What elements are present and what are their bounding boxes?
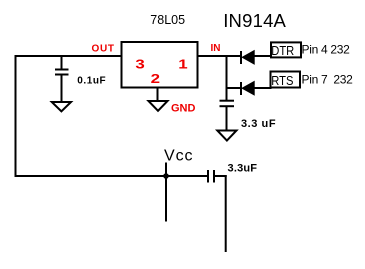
svg-text:Pin 4 232: Pin 4 232 bbox=[302, 42, 351, 56]
wire bottom horizontal to Vcc bbox=[15, 175, 209, 177]
svg-text:RTS: RTS bbox=[271, 73, 293, 88]
pin 2 lead bbox=[157, 88, 159, 102]
regulator U1 78L05 body bbox=[122, 42, 198, 88]
svg-text:DTR: DTR bbox=[271, 43, 294, 58]
svg-text:IN: IN bbox=[211, 43, 221, 54]
wire C3 right lead bbox=[214, 175, 227, 177]
diode D2 cathode bar bbox=[240, 82, 242, 95]
wire IN horizontal bbox=[198, 55, 241, 57]
svg-text:3: 3 bbox=[135, 57, 144, 72]
svg-text:3.3uF: 3.3uF bbox=[228, 163, 258, 175]
diode D1 body bbox=[242, 51, 254, 64]
capacitor C2 3.3uF plate top bbox=[220, 100, 235, 102]
wire right vertical down bbox=[225, 175, 227, 252]
svg-text:3.3 uF: 3.3 uF bbox=[241, 118, 276, 130]
wire D2 to RTS bbox=[254, 87, 272, 89]
wire left vertical bbox=[15, 55, 17, 177]
wire RTS row bbox=[227, 87, 241, 89]
capacitor C1 lead bottom bbox=[61, 75, 63, 103]
capacitor C3 plate right bbox=[213, 170, 215, 183]
capacitor C2 lead bottom bbox=[226, 106, 228, 130]
capacitor C1 plate top bbox=[55, 69, 69, 71]
svg-text:78L05: 78L05 bbox=[150, 13, 185, 27]
svg-text:IN914A: IN914A bbox=[223, 10, 286, 31]
svg-text:GND: GND bbox=[171, 103, 196, 115]
svg-text:2: 2 bbox=[151, 72, 160, 87]
capacitor C1 0.1uF lead top bbox=[61, 56, 63, 70]
svg-text:OUT: OUT bbox=[92, 43, 115, 54]
connector RTS box bbox=[271, 72, 301, 88]
svg-text:Vcc: Vcc bbox=[164, 148, 193, 165]
wire Vcc stub vertical bbox=[165, 163, 167, 222]
connector DTR box bbox=[271, 42, 301, 57]
svg-text:1: 1 bbox=[178, 57, 187, 72]
capacitor C3 3.3uF plate left bbox=[207, 170, 209, 183]
ground G3 bbox=[217, 131, 236, 141]
wire D1 to DTR bbox=[254, 55, 272, 57]
ground G2 bbox=[149, 101, 168, 111]
svg-text:Pin 7 232: Pin 7 232 bbox=[302, 72, 354, 86]
wire OUT horizontal bbox=[15, 55, 123, 57]
diode D1 cathode bar bbox=[240, 51, 242, 64]
ground G1 bbox=[52, 102, 71, 111]
node junction vertical bbox=[226, 55, 228, 101]
capacitor C2 plate bottom bbox=[220, 105, 235, 107]
svg-text:0.1uF: 0.1uF bbox=[77, 76, 106, 87]
diode D2 body bbox=[242, 82, 254, 95]
capacitor C1 plate bottom bbox=[55, 74, 69, 76]
junction dot bbox=[163, 173, 169, 179]
